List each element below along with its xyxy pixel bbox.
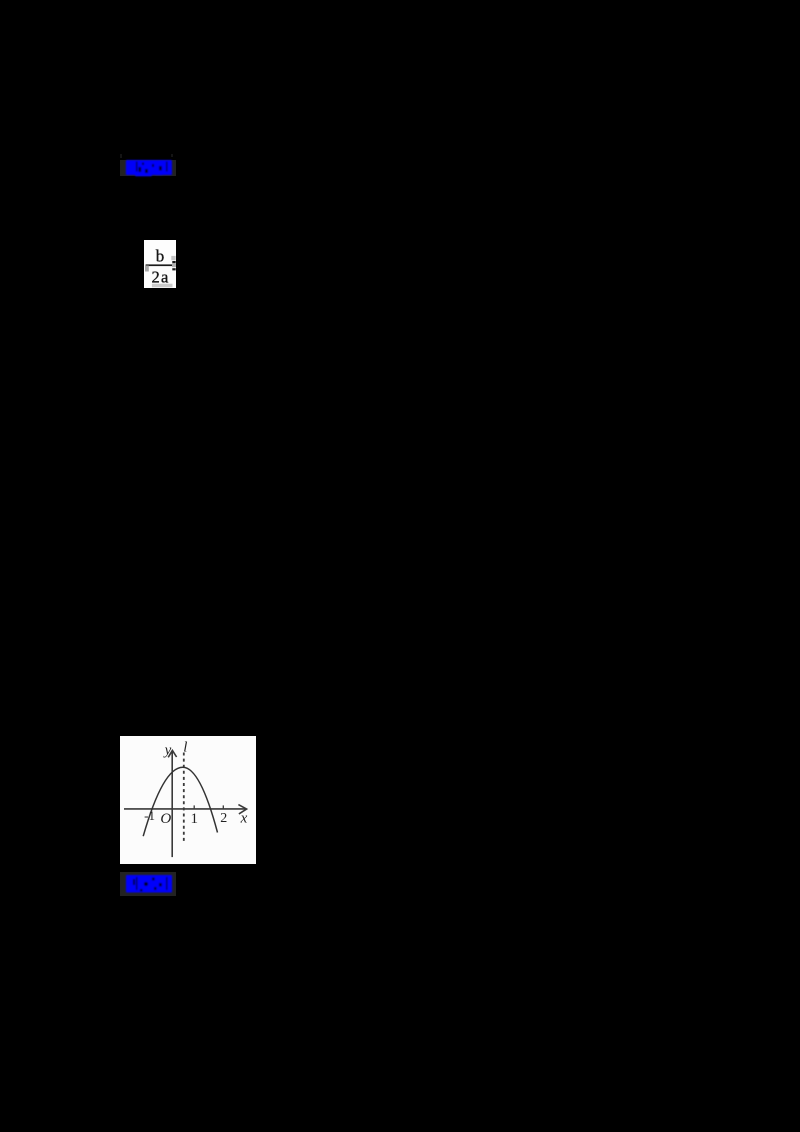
svg-text:y: y: [163, 742, 172, 758]
blue label 1 (【分析】): [119, 158, 179, 180]
y axis: [171, 751, 173, 857]
highlight box behind label 2: [120, 872, 176, 896]
svg-text:l: l: [183, 739, 187, 755]
parabola graph white box: [120, 736, 256, 864]
artifacts: [171, 256, 175, 260]
highlight box behind label 1: [120, 160, 176, 176]
fraction bar: [146, 264, 172, 266]
parabola: [143, 767, 217, 836]
svg-text:2: 2: [220, 811, 227, 826]
x axis: [124, 808, 246, 810]
fraction contents: [144, 240, 180, 290]
svg-text:O: O: [160, 811, 171, 827]
ticks: [193, 805, 195, 809]
fraction image b/(2a) white box: [144, 240, 176, 288]
tiny artifacts above label 1: [120, 154, 122, 158]
svg-text:b: b: [156, 246, 165, 265]
svg-text:-1: -1: [144, 808, 155, 823]
dashed line l: [183, 752, 185, 841]
svg-text:1: 1: [190, 811, 198, 827]
svg-text:2a: 2a: [152, 267, 170, 286]
blue label 2 (【点评】): [119, 871, 179, 897]
svg-text:x: x: [239, 810, 247, 826]
